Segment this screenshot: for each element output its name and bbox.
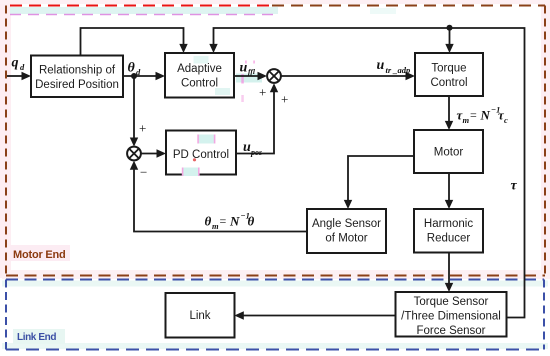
svg-text:Force Sensor: Force Sensor — [416, 325, 485, 337]
svg-text:=: = — [470, 108, 477, 122]
svg-text:Link: Link — [189, 310, 210, 322]
svg-text:Control: Control — [181, 78, 218, 90]
svg-text:N: N — [229, 214, 240, 229]
svg-text:of Motor: of Motor — [325, 233, 367, 245]
svg-text:Harmonic: Harmonic — [424, 218, 473, 230]
svg-text:+: + — [281, 92, 288, 107]
svg-text:m: m — [212, 221, 219, 231]
svg-text:=: = — [220, 214, 227, 228]
svg-text:θ: θ — [205, 214, 212, 229]
svg-text:N: N — [480, 108, 491, 123]
svg-text:tr _adp: tr _adp — [386, 65, 411, 75]
svg-text:PD Control: PD Control — [173, 149, 229, 161]
svg-text:u: u — [240, 61, 248, 76]
svg-text:pos: pos — [250, 148, 262, 157]
svg-text:u: u — [377, 58, 385, 73]
svg-text:Desired Position: Desired Position — [35, 79, 119, 91]
svg-text:Link End: Link End — [17, 332, 56, 343]
svg-text:Motor: Motor — [434, 147, 464, 159]
svg-text:Angle Sensor: Angle Sensor — [312, 218, 381, 230]
svg-text:θ: θ — [248, 214, 255, 229]
svg-text:Motor End: Motor End — [13, 249, 66, 261]
svg-text:ffl: ffl — [248, 67, 256, 76]
svg-text:c: c — [504, 115, 508, 125]
svg-text:Adaptive: Adaptive — [177, 63, 222, 75]
svg-text:q: q — [12, 56, 19, 71]
svg-text:u: u — [243, 140, 251, 155]
svg-text:−: − — [140, 165, 147, 180]
svg-text:m: m — [463, 115, 470, 125]
svg-text:Control: Control — [430, 77, 467, 89]
svg-text:θ: θ — [128, 61, 136, 76]
svg-text:Torque Sensor: Torque Sensor — [414, 296, 489, 308]
svg-text:Relationship of: Relationship of — [39, 65, 116, 77]
svg-text:+: + — [139, 121, 146, 136]
svg-text:/Three Dimensional: /Three Dimensional — [401, 311, 501, 323]
svg-text:τ: τ — [511, 179, 518, 194]
svg-text:Torque: Torque — [431, 63, 466, 75]
svg-text:+: + — [259, 85, 266, 100]
svg-text:Reducer: Reducer — [427, 233, 471, 245]
